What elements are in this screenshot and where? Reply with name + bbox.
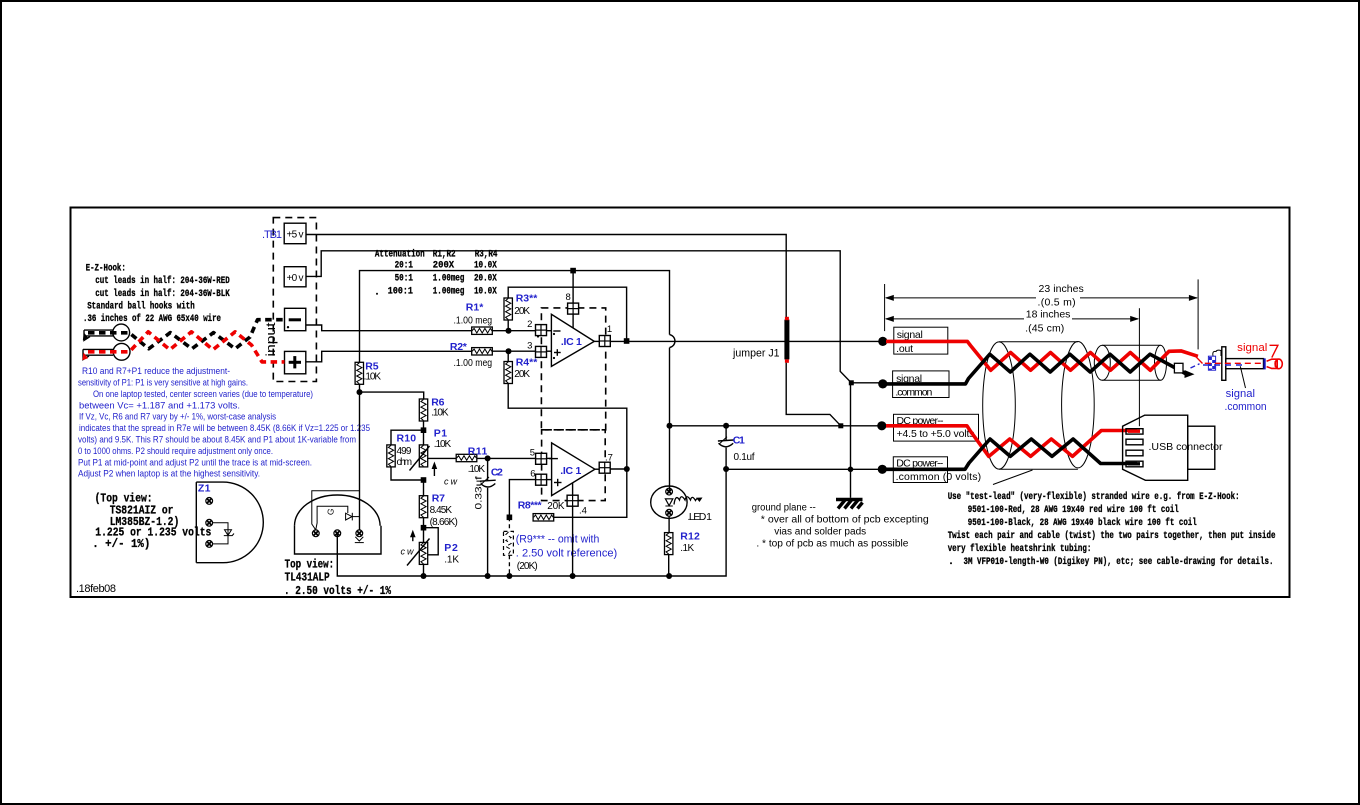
junction pin8 net	[570, 268, 576, 274]
svg-text:3M VFP010-length-W0 (Digikey P: 3M VFP010-length-W0 (Digikey PN), etc; s…	[964, 556, 1274, 568]
TL431 pin 3	[356, 530, 363, 537]
terminal DC power +5	[877, 414, 978, 441]
svg-text:sensitivity of P1: P1 is very: sensitivity of P1: P1 is very sensitive …	[78, 378, 248, 388]
svg-text:.1: .1	[604, 324, 612, 335]
probe blue dashed common line	[1191, 364, 1244, 368]
wire apex to pin1	[594, 340, 599, 342]
wire P1 to R7	[423, 480, 425, 496]
leader line to cable drawing	[993, 470, 1033, 485]
wire R4 feedback to pin7 output	[508, 383, 627, 469]
signal pair red wire	[886, 341, 1198, 370]
svg-text:.common: .common	[1225, 401, 1267, 413]
svg-text:volts) and 9.5K. This R7 shoul: volts) and 9.5K. This R7 should be about…	[78, 435, 356, 445]
resistor R7	[419, 496, 427, 518]
pin 4 square	[567, 495, 578, 506]
svg-text:1.00meg: 1.00meg	[433, 287, 465, 298]
black wire marker square	[1174, 363, 1183, 373]
junction feedback/output	[624, 338, 630, 344]
signal pair black wire	[886, 354, 1187, 384]
junction R8/R9	[507, 515, 513, 521]
dimension line 23 inches	[885, 283, 1198, 308]
wire minus terminal to R1	[306, 325, 471, 331]
op-amp IC1b triangle	[552, 443, 595, 496]
svg-text:P1: P1	[434, 427, 447, 439]
red leader to tip	[1270, 345, 1278, 357]
terminal +5v	[284, 223, 306, 244]
wire R8 to output2	[554, 469, 627, 517]
junction diag/rail	[838, 423, 843, 428]
svg-text:R3**: R3**	[516, 293, 539, 305]
svg-text:50:1: 50:1	[395, 273, 413, 284]
svg-text:.IC 1: .IC 1	[560, 465, 581, 477]
zener Z1 package (top view)	[196, 482, 263, 563]
svg-text:cut leads in half: 204-36W-RED: cut leads in half: 204-36W-RED	[95, 275, 229, 287]
wire output to jumper and signal out	[610, 340, 881, 342]
svg-text:1.00meg: 1.00meg	[433, 273, 465, 284]
svg-text:.LED 1: .LED 1	[688, 511, 713, 523]
wire +5 node horizontal y=271	[360, 271, 670, 363]
svg-text:.common (0 volts): .common (0 volts)	[896, 471, 982, 483]
svg-text:.7: .7	[605, 453, 613, 464]
svg-text:Adjust P2 when laptop is at th: Adjust P2 when laptop is at the highest …	[78, 469, 260, 479]
svg-text:.10K: .10K	[468, 464, 486, 475]
power pair black wire	[886, 439, 1137, 469]
note test-lead wire	[948, 491, 1276, 568]
svg-text:signal: signal	[1237, 342, 1267, 354]
svg-text:10.0X: 10.0X	[474, 260, 497, 271]
IC1 package dashed box B	[542, 430, 606, 501]
svg-text:R5: R5	[365, 360, 378, 372]
svg-text:9501-100-Black, 28 AWG 19x40 b: 9501-100-Black, 28 AWG 19x40 black wire …	[968, 517, 1197, 529]
svg-text:0.33uf: 0.33uf	[474, 476, 485, 509]
wire pin8 V+	[572, 271, 574, 328]
wire R2 to pin3	[492, 350, 535, 352]
wire pin6 to R8	[509, 480, 535, 518]
signal red probe tick	[1196, 357, 1203, 364]
svg-text:.1K: .1K	[444, 554, 459, 565]
dimension tick right 18in	[1138, 308, 1140, 426]
wire LED to R12	[668, 516, 670, 533]
svg-text:+5 v: +5 v	[287, 230, 304, 241]
wire pin6 to triangle	[547, 479, 552, 481]
wire hop over output line	[670, 335, 675, 348]
svg-text:.1.00 meg: .1.00 meg	[454, 358, 493, 369]
svg-text:.TB1: .TB1	[262, 229, 282, 241]
probe red grabber tip	[1267, 359, 1283, 369]
svg-text:.18feb08: .18feb08	[76, 583, 116, 595]
svg-text:20K: 20K	[514, 306, 530, 317]
svg-text:.: .	[948, 557, 954, 568]
svg-text:between Vc= +1.187 and +1.173: between Vc= +1.187 and +1.173 volts.	[79, 400, 240, 410]
svg-text:R10: R10	[397, 433, 417, 445]
pin 5 square	[536, 453, 547, 464]
svg-text:. * top of pcb as much as poss: . * top of pcb as much as possible	[756, 538, 908, 549]
svg-text:23 inches: 23 inches	[1039, 283, 1084, 295]
wire pin4 to ground rail	[572, 506, 574, 576]
junction P1 bottom	[421, 477, 427, 483]
svg-text:TL431ALP: TL431ALP	[285, 571, 330, 585]
wire R3 feedback to output	[508, 287, 626, 341]
schematic frame	[71, 208, 1290, 598]
svg-text:Twist each pair and cable (twi: Twist each pair and cable (twist) the tw…	[948, 530, 1276, 542]
note Z1 type (mono)	[92, 492, 211, 551]
svg-text:.1K: .1K	[680, 543, 694, 554]
svg-text:ground plane --: ground plane --	[752, 502, 816, 513]
svg-text:.common: .common	[895, 386, 932, 398]
svg-text:.10K: .10K	[431, 407, 449, 418]
junction R4 feedback/output2	[624, 466, 630, 472]
svg-text:.(45 cm): .(45 cm)	[1025, 322, 1064, 334]
svg-text:signal: signal	[897, 329, 923, 341]
stray period below minus terminal	[287, 326, 289, 328]
wire R7 to P2	[423, 518, 425, 543]
junction R2/R4	[506, 348, 512, 354]
wire ground tap	[850, 383, 852, 498]
note E-Z-Hook leads	[83, 262, 230, 325]
svg-text:10.0X: 10.0X	[474, 287, 497, 298]
attenuation table	[374, 249, 498, 299]
probe blue braid	[1208, 356, 1215, 370]
note ground plane	[752, 502, 929, 549]
wire P2 wiper jog	[424, 528, 439, 555]
svg-text:E-Z-Hook:: E-Z-Hook:	[86, 262, 126, 274]
dimension tick left	[884, 284, 886, 331]
+5 rail wire	[670, 425, 882, 427]
junction rail pin4	[570, 573, 576, 579]
terminal +0v	[284, 267, 306, 287]
svg-text:Top view:: Top view:	[285, 558, 335, 572]
arrow P1 cw	[432, 462, 438, 477]
svg-text:cw: cw	[401, 547, 415, 557]
svg-text:0.1uf: 0.1uf	[734, 452, 755, 463]
svg-text:20K: 20K	[514, 369, 530, 380]
svg-text:. 2.50 volts +/- 1%: . 2.50 volts +/- 1%	[284, 584, 392, 598]
capacitor C2	[480, 458, 496, 576]
resistor R12	[665, 533, 673, 555]
svg-text:.1.00 meg: .1.00 meg	[454, 316, 493, 327]
wire +0v terminal to signal common	[306, 251, 881, 383]
svg-text:+4.5 to +5.0 volts: +4.5 to +5.0 volts	[897, 428, 975, 440]
pin 7 square	[599, 462, 610, 473]
svg-text:+0 v: +0 v	[287, 273, 304, 284]
pin 8 square	[568, 303, 579, 314]
input twisted pair red wire	[88, 332, 285, 362]
resistor R2	[472, 348, 493, 355]
junction C1 bottom / common	[723, 466, 729, 472]
svg-text:(R9*** -- omit with: (R9*** -- omit with	[516, 534, 600, 546]
svg-text:. +/- 1%): . +/- 1%)	[92, 537, 150, 551]
svg-text:input: input	[264, 322, 278, 357]
junction R6/P1/R10 top	[421, 427, 427, 433]
op-amp IC1a minus input mark	[553, 330, 560, 332]
cable bundle big sleeve	[983, 342, 1094, 470]
svg-text:C1: C1	[733, 434, 745, 446]
probe connector	[1213, 347, 1266, 381]
wire divider branch to R6	[360, 392, 424, 399]
wire pin2 to triangle	[547, 330, 552, 332]
svg-text:Standard ball hooks with: Standard ball hooks with	[87, 300, 195, 312]
wire apex to pin7	[595, 468, 599, 470]
op-amp IC1b plus input mark	[554, 479, 562, 486]
junction rail C2	[485, 573, 491, 579]
arrow P2 cw	[410, 530, 416, 541]
junction +5 rail / C1	[723, 423, 729, 429]
svg-text:On one laptop tested, center s: On one laptop tested, center screen vari…	[93, 389, 313, 399]
svg-text:C2: C2	[491, 466, 503, 478]
wire R10 bottom	[391, 467, 424, 480]
potentiometer P2	[407, 539, 430, 566]
pin 2 square	[536, 325, 547, 336]
wire R12 to rail	[668, 555, 670, 576]
svg-text:indicates that the spread in R: indicates that the spread in R7e will be…	[79, 423, 370, 433]
resistor R3	[504, 298, 512, 320]
svg-text:.10K: .10K	[364, 372, 382, 383]
svg-text:0 to 1000 ohms. P2 should req: 0 to 1000 ohms. P2 should require adjust…	[78, 446, 273, 456]
svg-text:R8***: R8***	[518, 499, 543, 511]
junction C2 top	[485, 455, 491, 461]
wire R3 bottom	[507, 320, 509, 331]
svg-text:Z1: Z1	[198, 483, 211, 495]
resistor R5	[355, 362, 363, 384]
pin 6 square	[536, 474, 547, 485]
svg-text:R4**: R4**	[516, 357, 539, 369]
svg-text:R7: R7	[432, 493, 445, 505]
LED1	[651, 486, 703, 518]
resistor R11	[456, 454, 477, 461]
svg-text:.out: .out	[896, 343, 913, 355]
svg-text:cw: cw	[444, 477, 458, 487]
svg-text:9501-100-Red, 28 AWG 19x40 red: 9501-100-Red, 28 AWG 19x40 red wire 100 …	[968, 504, 1179, 516]
resistor R4	[504, 362, 512, 384]
svg-text:R11: R11	[468, 445, 488, 457]
black wire arrow to probe	[1185, 370, 1195, 378]
svg-text:signal: signal	[1226, 388, 1255, 400]
svg-text:R2*: R2*	[450, 341, 468, 353]
wire jumper bottom to +5 rail	[786, 363, 841, 426]
jumper J1 bar	[784, 317, 789, 363]
svg-text:20.0X: 20.0X	[474, 273, 497, 284]
wire down to +5 rail	[669, 348, 671, 491]
pin 1 square	[599, 336, 610, 347]
svg-text:P2: P2	[444, 542, 458, 554]
svg-text:.: .	[374, 288, 380, 299]
svg-text:vias and solder pads: vias and solder pads	[774, 526, 866, 537]
Z1 pin 3	[206, 541, 213, 548]
junction at ground branch	[849, 380, 854, 385]
resistor R9 (omitted, dashed)	[504, 517, 514, 576]
TL431 cathode mark under pin3	[355, 537, 364, 543]
TL431 pin 2	[334, 530, 341, 537]
hook bottom (red lead)	[82, 343, 130, 360]
wire pin7 output	[610, 468, 627, 470]
Z1 internal zener diode	[213, 523, 235, 544]
svg-text:R12: R12	[680, 531, 700, 543]
junction common/ground tap	[848, 467, 854, 473]
svg-text:(8.66K): (8.66K)	[430, 517, 458, 528]
wire R4 top	[507, 351, 509, 361]
terminal minus	[285, 308, 306, 330]
svg-text:* over all of bottom of pcb ex: * over all of bottom of pcb excepting	[761, 514, 929, 525]
svg-text:499: 499	[397, 446, 412, 457]
wire R11 to pin5	[477, 457, 536, 459]
wire R6 to P1	[423, 421, 425, 445]
wire R5 to TL431 pin3	[359, 384, 361, 530]
wire pin3 to triangle	[547, 350, 552, 352]
wire P1 wiper to R11	[428, 457, 456, 459]
wire R10 top	[391, 430, 424, 445]
svg-text:If Vz, Vc, R6 and R7 vary by +: If Vz, Vc, R6 and R7 vary by +/- 1%, wor…	[79, 412, 277, 422]
wire +5v terminal to jumper J1	[306, 235, 786, 320]
USB connector body	[1123, 415, 1215, 480]
pin 3 square	[536, 346, 547, 357]
ground plane symbol	[836, 500, 863, 509]
svg-text:.36 inches of 22 AWG 65x40 wir: .36 inches of 22 AWG 65x40 wire	[83, 313, 221, 325]
terminal signal out	[878, 327, 948, 355]
svg-text:6: 6	[530, 469, 535, 480]
svg-text:100:1: 100:1	[388, 287, 413, 298]
svg-text:5: 5	[530, 448, 535, 459]
junction rail P2	[421, 573, 427, 579]
junction R1/R3	[506, 328, 512, 334]
wire pin5 to triangle	[547, 457, 552, 459]
TL431 pin 1	[312, 530, 319, 537]
dimension line 18 inches	[885, 309, 1139, 335]
potentiometer P1	[410, 445, 430, 471]
Z1 pin 2	[206, 519, 213, 526]
capacitor C1	[718, 426, 734, 469]
power pair red wire	[886, 426, 1137, 457]
svg-text:20K: 20K	[547, 501, 565, 512]
junction R5 bottom	[357, 389, 363, 395]
input twisted pair black wire	[88, 320, 285, 349]
wire plus terminal to R2	[306, 351, 472, 362]
svg-text:R10 and R7+P1 reduce the adjus: R10 and R7+P1 reduce the adjustment-	[82, 366, 230, 376]
svg-text:. 2.50 volt reference): . 2.50 volt reference)	[516, 548, 617, 560]
svg-text:.IC 1: .IC 1	[561, 336, 582, 348]
svg-text:ohm: ohm	[397, 457, 413, 468]
junction R7 bottom	[421, 525, 427, 531]
svg-text:3: 3	[527, 340, 532, 351]
DC common wire	[726, 468, 881, 470]
svg-text:200X: 200X	[433, 260, 454, 271]
hook top (black lead)	[83, 324, 130, 341]
svg-text:(20K): (20K)	[517, 561, 538, 572]
stray periods near IC1a pins	[537, 333, 555, 359]
IC1 package dashed box A	[541, 308, 605, 430]
terminal signal common	[878, 371, 949, 399]
svg-text:Use "test-lead" (very-flexible: Use "test-lead" (very-flexible) stranded…	[948, 491, 1240, 503]
svg-text:Put P1 at mid-point and adjust: Put P1 at mid-point and adjust P2 until …	[78, 457, 312, 467]
resistor R6	[419, 399, 427, 421]
svg-text:18 inches: 18 inches	[1026, 309, 1071, 321]
op-amp IC1a plus input mark	[554, 349, 561, 356]
label signal common (blue)	[1225, 388, 1267, 413]
junction +5 rail / LED branch	[667, 423, 673, 429]
junction rail LED chain	[666, 573, 672, 579]
ground rail	[337, 469, 726, 576]
wire pin4 into triangle	[572, 483, 574, 496]
terminal DC power common	[878, 457, 981, 483]
op-amp IC1b minus input mark	[549, 458, 558, 460]
svg-text:8.45K: 8.45K	[430, 505, 453, 516]
svg-text:8: 8	[566, 292, 571, 303]
terminal plus	[285, 351, 306, 373]
resistor R1	[472, 327, 493, 334]
terminal block TB1 dashed outline	[273, 218, 316, 382]
note adjustment sensitivity (blue)	[78, 366, 370, 479]
resistor R8	[533, 514, 554, 521]
svg-text:R1*: R1*	[466, 301, 484, 313]
svg-text:jumper J1: jumper J1	[732, 347, 779, 359]
TL431 internal wiring	[312, 491, 360, 530]
svg-text:very flexible heatshrink tubin: very flexible heatshrink tubing:	[948, 543, 1092, 555]
dimension tick right 23in	[1197, 279, 1199, 349]
signal pair heatshrink sleeve	[1094, 345, 1166, 380]
svg-text:.USB connector: .USB connector	[1149, 441, 1223, 453]
TL431 package (top view)	[295, 495, 382, 554]
op-amp IC1a triangle	[551, 314, 594, 366]
note TL431 (mono)	[284, 558, 392, 598]
Z1 pin 1	[206, 498, 213, 505]
svg-text:2: 2	[527, 319, 532, 330]
junction rail R9	[506, 573, 512, 579]
leader signal common	[1240, 366, 1245, 388]
svg-text:20:1: 20:1	[395, 260, 413, 271]
resistor R10	[387, 445, 395, 467]
wire R1 to pin2	[492, 330, 535, 332]
svg-text:.4: .4	[579, 505, 587, 516]
svg-text:.(0.5 m): .(0.5 m)	[1038, 296, 1076, 308]
svg-text:cut leads in half: 204-36W-BLK: cut leads in half: 204-36W-BLK	[95, 288, 229, 300]
probe red dashed core line	[1205, 362, 1263, 364]
svg-text:.10K: .10K	[434, 439, 452, 450]
wire P2 to ground rail	[423, 564, 425, 576]
